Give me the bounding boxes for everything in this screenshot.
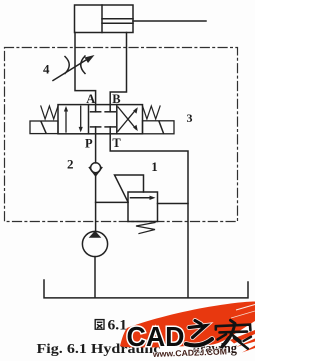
wire: check valve to pump outlet (95, 173, 97, 232)
directional valve 3: left solenoid (30, 121, 58, 134)
cylinder (top) (75, 5, 207, 33)
throttle valve 4 (adjustable, on left line) (53, 55, 95, 81)
watermark logo: character 家 (216, 320, 251, 348)
svg-text:6.1: 6.1 (108, 318, 128, 334)
wire: relief valve inlet tee (96, 201, 128, 203)
directional valve 3: right solenoid (143, 121, 175, 134)
svg-text:P: P (85, 136, 93, 150)
directional valve 3: left spring (41, 106, 58, 119)
directional valve 3: right spring (143, 106, 161, 119)
watermark logo: red brush swoosh (120, 302, 255, 353)
svg-text:4: 4 (43, 62, 50, 77)
svg-text:T: T (112, 136, 121, 150)
svg-text:B: B (112, 92, 120, 106)
wire: relief valve outlet to return line (158, 203, 189, 205)
enclosure (power unit boundary, dash-dot) (5, 48, 238, 222)
svg-text:1: 1 (151, 159, 158, 174)
wire: cylinder left port to valve port A (75, 33, 96, 105)
watermark logo: character 之 (186, 321, 212, 346)
wire: valve T return line to tank (110, 134, 188, 298)
svg-text:A: A (86, 92, 95, 106)
wire: pump suction to tank (94, 257, 96, 298)
check valve 2 (89, 163, 101, 176)
svg-text:2: 2 (67, 157, 74, 172)
svg-text:www.CADZJ.COM: www.CADZJ.COM (152, 346, 227, 359)
svg-text:3: 3 (187, 111, 193, 125)
directional valve 3: centre position (blocked ports) (91, 105, 116, 134)
labels (43, 62, 193, 175)
directional valve 3: right position (crossed arrows) (118, 107, 138, 131)
pump (82, 231, 107, 257)
caption (Chinese): 图 6.1 (95, 318, 127, 334)
relief valve 1 (115, 175, 158, 234)
directional valve 3: left position (parallel arrows) (64, 106, 83, 132)
wire: cylinder right port to valve port B (110, 33, 126, 105)
directional valve 3: envelope (58, 105, 143, 134)
wire: valve P to check valve (95, 134, 97, 163)
tank (44, 280, 248, 298)
